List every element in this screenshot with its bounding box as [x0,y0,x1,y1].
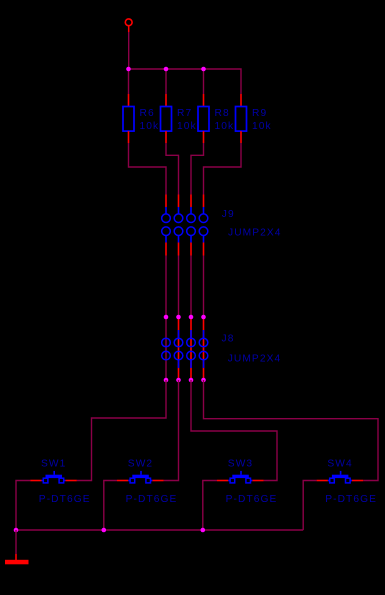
svg-text:P-DT6GE: P-DT6GE [39,494,91,505]
svg-text:SW3: SW3 [228,459,253,470]
svg-text:SW4: SW4 [327,459,352,470]
wire J8 to SW3 [191,380,277,481]
junction node bus-SW3 [201,528,206,533]
ground [5,554,29,564]
junction node bus-R6 [126,67,131,72]
junction node bus-SW1/gnd [14,528,19,533]
svg-text:SW2: SW2 [128,459,153,470]
switch SW4 [317,459,377,506]
svg-text:R6: R6 [140,108,155,119]
svg-text:R8: R8 [215,108,230,119]
junction node J8 pin5 bottom [164,378,169,383]
svg-text:J9: J9 [222,209,235,220]
power pin stub [128,26,130,32]
svg-text:SW1: SW1 [41,459,66,470]
junction node J8 pin3 top [189,315,194,320]
wire SW3 left to bus [203,481,217,531]
svg-text:R7: R7 [177,108,192,119]
svg-text:P-DT6GE: P-DT6GE [325,494,377,505]
wire ground bus [16,529,303,531]
wire top bus [129,69,242,94]
wire J8 to SW1 [77,380,166,481]
wire SW2 left to bus [104,481,117,531]
switch SW1 [30,459,90,506]
svg-text:10k: 10k [140,121,160,132]
wire power to bus [128,32,130,69]
junction node J8 pin7 bottom [189,378,194,383]
wire stub R6 [128,69,130,94]
switch SW2 [117,459,177,506]
junction node bus-R7 [164,67,169,72]
wire R8 to J9 pin3 [191,143,204,195]
svg-text:P-DT6GE: P-DT6GE [226,494,278,505]
wire J8 to SW2 [164,380,179,481]
wire J8 to SW4 [204,380,379,481]
resistor R7 [161,94,197,143]
wire stub R8 [203,69,205,94]
wire J9 pin7 to J8 [190,256,192,318]
svg-text:P-DT6GE: P-DT6GE [126,494,178,505]
wire stub R7 [165,69,167,94]
wire R9 to J9 pin4 [204,143,242,195]
wire J9 pin6 to J8 [178,256,180,318]
svg-text:10k: 10k [252,121,272,132]
junction node J8 pin1 top [164,315,169,320]
junction node J8 pin8 bottom [201,378,206,383]
wire to ground [15,530,17,554]
wire R7 to J9 pin2 [166,143,179,195]
junction node J8 pin2 top [176,315,181,320]
wire SW4 left to bus [303,481,316,531]
junction node bus-R8 [201,67,206,72]
svg-text:J8: J8 [222,334,235,345]
resistor R8 [198,94,234,143]
junction node bus-SW2 [102,528,107,533]
wire J9 pin5 to J8 [165,256,167,318]
svg-text:10k: 10k [177,121,197,132]
resistor R9 [236,94,272,143]
junction node J8 pin4 top [201,315,206,320]
svg-text:JUMP2X4: JUMP2X4 [228,228,282,239]
wire R6 to J9 pin1 [129,143,167,195]
connector J8 [162,317,282,380]
resistor R6 [123,94,159,143]
wire SW1 left to bus [16,481,30,531]
svg-text:JUMP2X4: JUMP2X4 [228,354,282,365]
svg-text:10k: 10k [215,121,235,132]
junction node J8 pin6 bottom [176,378,181,383]
svg-text:R9: R9 [252,108,267,119]
switch SW3 [217,459,277,506]
power terminal circle [125,19,132,26]
connector J9 [162,195,282,256]
wire J9 pin8 to J8 [203,256,205,318]
